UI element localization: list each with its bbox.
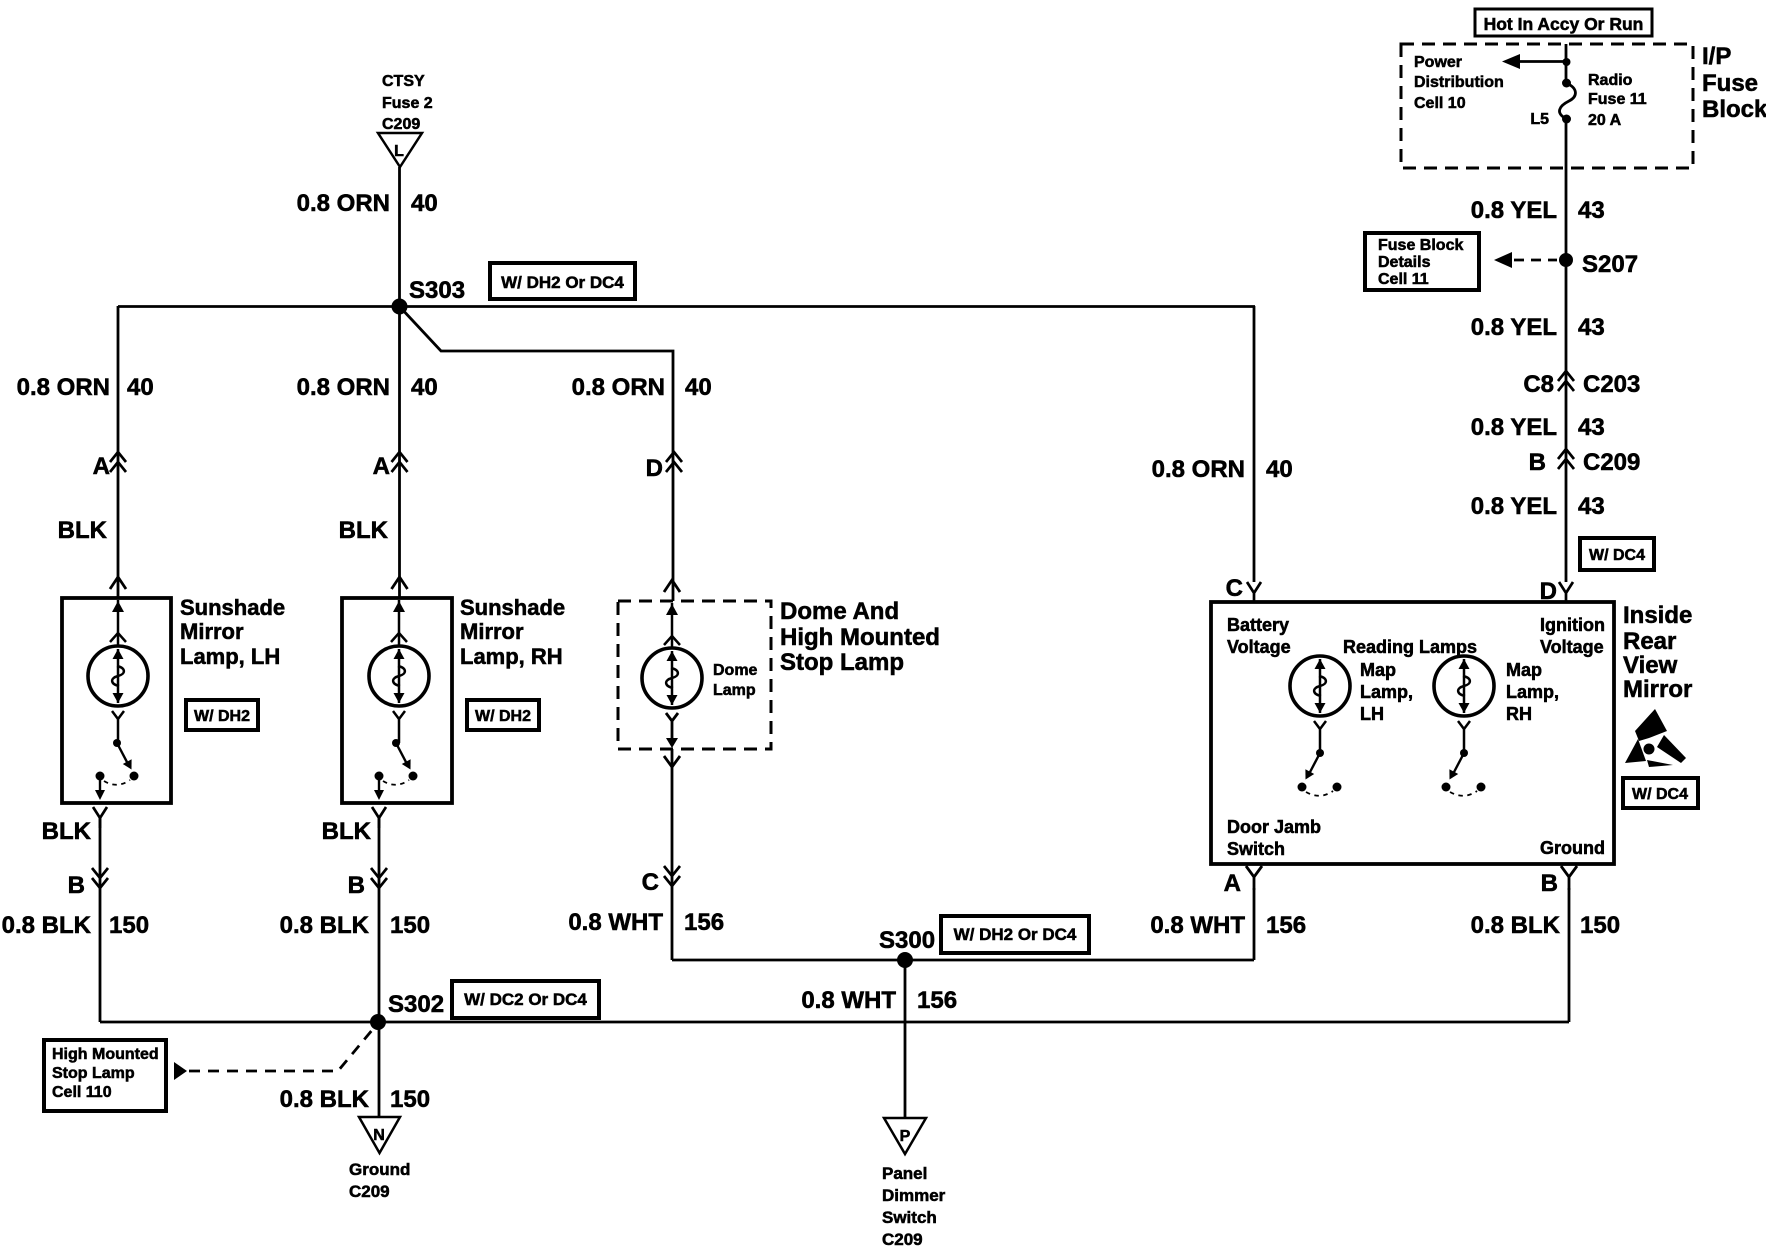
svg-text:B: B <box>348 872 365 899</box>
svg-text:Voltage: Voltage <box>1540 637 1604 657</box>
svg-text:S207: S207 <box>1582 251 1638 278</box>
svg-text:BLK: BLK <box>322 818 372 845</box>
svg-text:150: 150 <box>390 912 430 939</box>
svg-text:W/ DH2 Or DC4: W/ DH2 Or DC4 <box>501 273 624 292</box>
svg-text:156: 156 <box>1266 912 1306 939</box>
svg-text:W/ DH2: W/ DH2 <box>194 708 250 725</box>
svg-text:Mirror: Mirror <box>1623 676 1692 703</box>
svg-text:A: A <box>93 453 110 480</box>
svg-text:A: A <box>1224 870 1241 897</box>
svg-text:Mirror: Mirror <box>460 619 524 644</box>
svg-text:Voltage: Voltage <box>1227 637 1291 657</box>
svg-text:0.8 YEL: 0.8 YEL <box>1471 314 1557 341</box>
svg-text:Cell 10: Cell 10 <box>1414 95 1466 112</box>
svg-text:0.8 YEL: 0.8 YEL <box>1471 493 1557 520</box>
svg-text:RH: RH <box>1506 704 1532 724</box>
svg-text:High Mounted: High Mounted <box>780 624 940 651</box>
svg-text:B: B <box>1529 449 1546 476</box>
svg-text:B: B <box>1541 870 1558 897</box>
svg-text:Stop Lamp: Stop Lamp <box>52 1065 135 1082</box>
svg-text:0.8 YEL: 0.8 YEL <box>1471 414 1557 441</box>
svg-text:BLK: BLK <box>339 517 389 544</box>
svg-text:Door Jamb: Door Jamb <box>1227 817 1321 837</box>
svg-text:0.8 ORN: 0.8 ORN <box>1152 456 1245 483</box>
svg-text:N: N <box>373 1127 385 1144</box>
svg-text:0.8 WHT: 0.8 WHT <box>1150 912 1245 939</box>
svg-text:Ground: Ground <box>349 1160 410 1179</box>
svg-text:Ground: Ground <box>1540 838 1605 858</box>
svg-text:40: 40 <box>1266 456 1293 483</box>
svg-text:Map: Map <box>1360 660 1396 680</box>
svg-text:Panel: Panel <box>882 1164 927 1183</box>
svg-text:D: D <box>646 455 663 482</box>
svg-text:I/P: I/P <box>1702 43 1731 70</box>
svg-text:150: 150 <box>109 912 149 939</box>
svg-text:P: P <box>900 1128 911 1145</box>
svg-text:S302: S302 <box>388 991 444 1018</box>
svg-text:B: B <box>68 872 85 899</box>
svg-text:Lamp, RH: Lamp, RH <box>460 644 563 669</box>
svg-text:Fuse Block: Fuse Block <box>1378 237 1463 254</box>
svg-text:43: 43 <box>1578 414 1605 441</box>
svg-text:W/ DH2 Or DC4: W/ DH2 Or DC4 <box>954 925 1077 944</box>
svg-text:L5: L5 <box>1530 111 1549 128</box>
svg-text:High Mounted: High Mounted <box>52 1046 159 1063</box>
svg-text:Stop Lamp: Stop Lamp <box>780 649 904 676</box>
svg-text:0.8 ORN: 0.8 ORN <box>572 374 665 401</box>
svg-text:W/ DC4: W/ DC4 <box>1632 786 1688 803</box>
svg-text:C: C <box>642 869 659 896</box>
svg-text:S300: S300 <box>879 927 935 954</box>
svg-text:0.8 ORN: 0.8 ORN <box>297 190 390 217</box>
svg-text:Rear: Rear <box>1623 628 1676 655</box>
svg-text:D: D <box>1540 578 1557 605</box>
svg-text:S303: S303 <box>409 277 465 304</box>
svg-text:Hot In Accy Or Run: Hot In Accy Or Run <box>1484 14 1644 34</box>
svg-text:Block: Block <box>1702 96 1766 123</box>
svg-text:40: 40 <box>411 190 438 217</box>
svg-text:0.8 BLK: 0.8 BLK <box>280 1086 370 1113</box>
svg-text:Lamp, LH: Lamp, LH <box>180 644 280 669</box>
svg-text:Fuse 11: Fuse 11 <box>1588 91 1647 108</box>
svg-text:Mirror: Mirror <box>180 619 244 644</box>
svg-text:C209: C209 <box>382 116 420 133</box>
svg-text:C: C <box>1226 575 1243 602</box>
svg-text:Fuse: Fuse <box>1702 70 1758 97</box>
svg-text:W/ DC2 Or DC4: W/ DC2 Or DC4 <box>464 990 587 1009</box>
svg-text:C8: C8 <box>1523 371 1554 398</box>
svg-text:BLK: BLK <box>58 517 108 544</box>
svg-text:40: 40 <box>411 374 438 401</box>
svg-text:BLK: BLK <box>42 818 92 845</box>
svg-text:156: 156 <box>917 987 957 1014</box>
svg-text:Lamp: Lamp <box>713 682 756 699</box>
svg-text:L: L <box>394 143 404 160</box>
svg-text:LH: LH <box>1360 704 1384 724</box>
svg-text:View: View <box>1623 652 1678 679</box>
svg-text:43: 43 <box>1578 314 1605 341</box>
svg-text:Dome: Dome <box>713 662 758 679</box>
svg-text:Details: Details <box>1378 254 1431 271</box>
svg-text:Switch: Switch <box>882 1208 937 1227</box>
svg-text:Inside: Inside <box>1623 602 1692 629</box>
svg-text:Dome And: Dome And <box>780 598 899 625</box>
svg-text:0.8 BLK: 0.8 BLK <box>2 912 92 939</box>
svg-text:Distribution: Distribution <box>1414 74 1504 91</box>
svg-text:Lamp,: Lamp, <box>1360 682 1413 702</box>
svg-text:0.8 ORN: 0.8 ORN <box>297 374 390 401</box>
svg-text:A: A <box>373 453 390 480</box>
svg-text:0.8 ORN: 0.8 ORN <box>17 374 110 401</box>
svg-text:C209: C209 <box>882 1230 923 1248</box>
svg-text:C209: C209 <box>349 1182 390 1201</box>
svg-text:0.8 YEL: 0.8 YEL <box>1471 197 1557 224</box>
svg-text:Sunshade: Sunshade <box>460 595 565 620</box>
svg-text:20 A: 20 A <box>1588 112 1622 129</box>
svg-text:Sunshade: Sunshade <box>180 595 285 620</box>
svg-text:Radio: Radio <box>1588 72 1633 89</box>
svg-text:0.8 BLK: 0.8 BLK <box>280 912 370 939</box>
svg-text:40: 40 <box>127 374 154 401</box>
svg-text:Lamp,: Lamp, <box>1506 682 1559 702</box>
svg-text:40: 40 <box>685 374 712 401</box>
svg-text:Power: Power <box>1414 54 1462 71</box>
svg-text:43: 43 <box>1578 197 1605 224</box>
svg-text:Switch: Switch <box>1227 839 1285 859</box>
svg-text:0.8 BLK: 0.8 BLK <box>1471 912 1561 939</box>
svg-text:Ignition: Ignition <box>1540 615 1605 635</box>
svg-text:Battery: Battery <box>1227 615 1289 635</box>
svg-text:Cell 110: Cell 110 <box>52 1084 112 1101</box>
svg-text:Fuse 2: Fuse 2 <box>382 95 433 112</box>
svg-text:C203: C203 <box>1583 371 1640 398</box>
svg-text:C209: C209 <box>1583 449 1640 476</box>
svg-text:Cell 11: Cell 11 <box>1378 271 1429 288</box>
svg-text:Dimmer: Dimmer <box>882 1186 946 1205</box>
svg-text:150: 150 <box>390 1086 430 1113</box>
svg-text:Reading Lamps: Reading Lamps <box>1343 637 1477 657</box>
svg-text:CTSY: CTSY <box>382 73 425 90</box>
svg-text:Map: Map <box>1506 660 1542 680</box>
svg-text:0.8 WHT: 0.8 WHT <box>801 987 896 1014</box>
svg-text:156: 156 <box>684 909 724 936</box>
svg-text:W/ DH2: W/ DH2 <box>475 708 531 725</box>
svg-text:0.8 WHT: 0.8 WHT <box>568 909 663 936</box>
svg-text:W/ DC4: W/ DC4 <box>1589 547 1645 564</box>
svg-text:43: 43 <box>1578 493 1605 520</box>
svg-text:150: 150 <box>1580 912 1620 939</box>
